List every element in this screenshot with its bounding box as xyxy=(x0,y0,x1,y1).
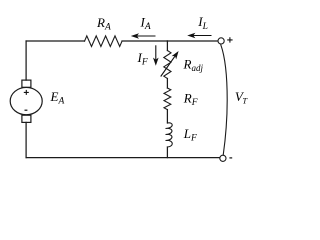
rheostat R_adj adjustment arrow (diagonal, pointing up-right) xyxy=(161,55,176,77)
svg-text:IA: IA xyxy=(140,15,151,33)
wire: R_F to L_F xyxy=(166,110,168,123)
motor E_A polarity - (inside circle, bottom) xyxy=(25,109,28,111)
V_T measurement arc between terminals xyxy=(221,45,227,155)
current arrow I_F (field branch, pointing down) xyxy=(155,45,157,59)
motor E_A bottom brush xyxy=(22,115,31,122)
label + (positive terminal polarity) xyxy=(227,37,232,42)
svg-text:RF: RF xyxy=(183,91,198,109)
inductor L_F xyxy=(166,123,173,147)
rheostat R_adj (variable resistor) xyxy=(164,51,171,79)
wire: left vertical (top-left corner down to motor top brush) xyxy=(25,41,27,80)
svg-text:IF: IF xyxy=(137,50,148,68)
resistor R_A xyxy=(85,36,122,47)
wire: R_adj to R_F xyxy=(166,79,168,89)
motor E_A armature circle xyxy=(10,87,42,114)
svg-text:IL: IL xyxy=(197,14,208,32)
motor E_A polarity + (inside circle, top) xyxy=(24,90,29,95)
wire: top rail left segment (top-left corner to R_A) xyxy=(26,40,84,42)
label - (negative terminal polarity) xyxy=(229,157,232,159)
resistor R_F xyxy=(164,88,171,110)
wire: L_F to bottom rail xyxy=(166,147,168,158)
wire: field branch junction to rheostat R_adj xyxy=(166,41,168,51)
wire: top rail middle segment (R_A to field junction) xyxy=(122,40,167,42)
wire: top rail right segment (field junction to positive terminal) xyxy=(167,40,218,42)
svg-text:Radj: Radj xyxy=(183,57,204,74)
wire: motor bottom brush down to bottom rail xyxy=(25,122,27,157)
svg-text:EA: EA xyxy=(50,89,65,107)
terminal: negative output (open circle) xyxy=(220,155,226,161)
terminal: positive output (open circle) xyxy=(218,38,224,44)
current arrow I_L (on top rail, pointing left) xyxy=(187,33,195,39)
current arrow I_A (on top rail, pointing left) xyxy=(131,33,139,39)
svg-text:RA: RA xyxy=(96,15,111,33)
wire: bottom rail xyxy=(26,157,220,159)
svg-text:LF: LF xyxy=(183,126,197,144)
svg-text:VT: VT xyxy=(235,89,248,106)
motor E_A top brush xyxy=(22,80,31,87)
